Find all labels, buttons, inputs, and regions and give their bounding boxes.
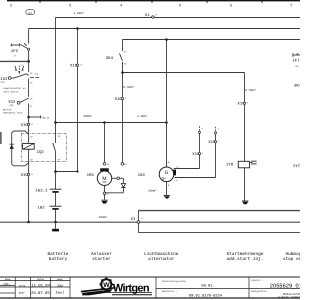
signal branch D8:13 <box>27 116 50 120</box>
captions <box>47 251 312 262</box>
node rail x56 <box>54 121 57 124</box>
ground battery <box>52 222 59 231</box>
svg-text:W: W <box>103 282 110 289</box>
wire solenoid x245 <box>244 73 246 202</box>
alternator 1G4 <box>138 161 180 187</box>
svg-text:M: M <box>102 176 106 182</box>
node x28 ground <box>27 221 30 224</box>
svg-text:1G4: 1G4 <box>138 173 146 178</box>
svg-text:09.01.0170-0234: 09.01.0170-0234 <box>189 293 223 298</box>
label Hauptschalter <box>3 87 26 93</box>
node 50-branch <box>121 71 124 74</box>
svg-text:X10: X10 <box>115 97 123 102</box>
svg-text:1Q2: 1Q2 <box>37 150 45 155</box>
svg-text:Identnr.:: Identnr.: <box>251 279 263 282</box>
svg-text:C1: C1 <box>35 73 39 76</box>
node bridge left <box>54 170 57 173</box>
starter feed <box>104 123 106 163</box>
wire 30 bus A <box>56 17 301 19</box>
svg-text:B-: B- <box>168 184 171 187</box>
wire B+ riser x166 <box>166 40 168 168</box>
ground starter <box>101 200 107 203</box>
svg-text:Datum: Datum <box>37 278 45 281</box>
connector X10 x200 <box>192 152 204 157</box>
svg-text:3K4: 3K4 <box>106 56 114 61</box>
svg-text:3K4: 3K4 <box>294 83 300 88</box>
svg-text:50mm²: 50mm² <box>84 114 93 118</box>
switch contact at fuse <box>20 43 30 50</box>
svg-text:Jax: Jax <box>57 284 63 289</box>
svg-text:1G2.1: 1G2.1 <box>35 189 48 194</box>
svg-text:X10: X10 <box>21 173 29 178</box>
key actuator symbol <box>15 66 24 74</box>
switch YS2 <box>8 98 33 109</box>
svg-text:0.5mm²: 0.5mm² <box>123 85 134 89</box>
ground rail <box>0 221 300 223</box>
sheet tag B3 <box>26 10 35 15</box>
battery 1G2 <box>37 203 61 211</box>
node x56 ground <box>54 221 57 224</box>
connector X1 bottom <box>131 217 145 224</box>
ground solenoid <box>242 201 248 204</box>
svg-text:electr.compon.: electr.compon. <box>278 295 300 299</box>
svg-text:09.01.: 09.01. <box>201 283 214 288</box>
wire end marker x216 <box>215 127 220 134</box>
svg-text:Name: Name <box>57 278 63 281</box>
switch 1S2 <box>0 74 39 85</box>
svg-text:Bestellnr.:: Bestellnr.: <box>162 290 177 293</box>
node rail x105 <box>103 121 106 124</box>
svg-text:1F7: 1F7 <box>292 59 300 64</box>
fold mark <box>0 132 2 144</box>
svg-text:Designation:: Designation: <box>251 290 268 293</box>
wire 50 branch <box>123 72 245 74</box>
svg-text:alternator: alternator <box>148 256 175 262</box>
svg-text:1G2: 1G2 <box>37 206 45 211</box>
svg-text:stop engine: stop engine <box>283 256 300 262</box>
wire battery feed x56 <box>55 18 57 223</box>
riser X1 <box>137 211 139 233</box>
svg-text:gepr.: gepr. <box>19 292 27 295</box>
svg-text:1.6mm²: 1.6mm² <box>137 114 148 118</box>
svg-text:add.start inj.: add.start inj. <box>227 256 264 262</box>
Wirtgen logo <box>81 278 152 296</box>
wire 30 bus B <box>29 28 300 30</box>
wire D+ <box>174 134 200 169</box>
svg-text:D8:13: D8:13 <box>42 117 50 120</box>
diode starter <box>105 177 126 193</box>
connector X10 x122 <box>115 97 127 102</box>
wire x78 <box>77 29 79 172</box>
connector X10 x28 lower <box>21 173 34 178</box>
svg-text:1M3: 1M3 <box>87 173 95 178</box>
page top border <box>7 0 300 8</box>
svg-text:16mm²: 16mm² <box>99 215 108 219</box>
node bridge right <box>76 170 78 172</box>
svg-text:GM1: GM1 <box>1 81 6 84</box>
svg-text:Name: Name <box>5 278 11 281</box>
wire lower right <box>138 231 300 233</box>
svg-text:29.07.05: 29.07.05 <box>31 291 50 296</box>
svg-text:0.5mm²: 0.5mm² <box>245 88 256 92</box>
svg-text:1Y7: 1Y7 <box>293 164 300 169</box>
svg-text:7: 7 <box>290 3 292 8</box>
svg-text:2055629_01: 2055629_01 <box>270 284 300 290</box>
connector X10 x78 <box>70 63 83 68</box>
relay 1Q2 enclosure <box>21 134 66 162</box>
svg-text:X10: X10 <box>21 123 29 128</box>
svg-text:battery: battery <box>49 256 68 262</box>
diode V1 <box>10 144 14 149</box>
svg-text:Saul: Saul <box>56 291 65 296</box>
node wire C <box>165 38 168 41</box>
connector X10 x245 <box>237 102 249 107</box>
battery 1G2.1 <box>35 186 61 194</box>
svg-text:Maschinentyp/Code:: Maschinentyp/Code: <box>162 280 187 283</box>
contact 1Q2 main <box>53 135 61 161</box>
svg-text:X1: X1 <box>131 217 136 222</box>
wire D+ bus C <box>123 39 301 41</box>
wire W <box>175 134 216 178</box>
rail 50mm2 <box>56 122 167 124</box>
svg-text:emergency stop: emergency stop <box>3 112 23 115</box>
title block revision texts <box>1 278 64 296</box>
relay coil 1Q2 <box>23 135 45 161</box>
svg-text:X1: X1 <box>145 13 150 18</box>
label emergency stop <box>3 108 23 114</box>
svg-text:11.01.04: 11.01.04 <box>31 284 50 289</box>
left stub wire <box>0 60 29 62</box>
wire x28 main <box>28 29 30 223</box>
node stub <box>27 60 30 63</box>
svg-text:1F2: 1F2 <box>11 49 19 54</box>
connector X1 top <box>145 13 158 18</box>
svg-text:16mm²: 16mm² <box>148 188 157 192</box>
fuse 1F2 <box>11 44 20 58</box>
title block right texts <box>162 279 304 299</box>
ground alternator <box>164 182 170 199</box>
svg-text:1.6mm²: 1.6mm² <box>74 11 85 15</box>
connector X10 x216 <box>208 140 220 145</box>
connector X10 x28 upper <box>21 123 34 128</box>
wire battery bridge <box>56 171 78 173</box>
title block frame <box>0 277 300 298</box>
diode loop 1Q2 <box>12 131 29 166</box>
contact 3K4 <box>106 40 127 164</box>
starter motor 1M3 <box>87 163 128 200</box>
wire end marker x200 <box>199 126 204 133</box>
node rail x166 <box>165 121 168 124</box>
svg-text:GM1: GM1 <box>10 104 15 107</box>
ground return rail right <box>138 210 300 212</box>
solenoid 1Y8 <box>226 161 257 168</box>
svg-text:batt switch: batt switch <box>3 90 19 93</box>
svg-text:norm.: norm. <box>19 285 27 288</box>
svg-text:3~: 3~ <box>162 176 167 181</box>
svg-text:B3: B3 <box>28 12 32 15</box>
svg-text:1Y8: 1Y8 <box>226 163 234 168</box>
svg-text:starter: starter <box>92 257 111 262</box>
fuse 1F7 top right cut <box>292 53 300 68</box>
node wire B x78 <box>76 27 79 30</box>
